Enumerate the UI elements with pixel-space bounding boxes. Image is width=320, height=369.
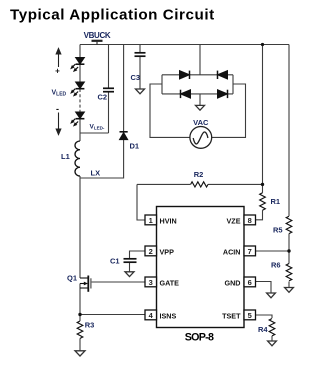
svg-text:SOP-8: SOP-8	[185, 332, 214, 344]
wire C2 vertical top	[108, 45, 110, 89]
wire R3 to ground	[79, 338, 81, 350]
svg-text:Q1: Q1	[67, 274, 77, 283]
wire GATE pin 3 to Q1	[91, 281, 145, 283]
svg-text:L1: L1	[61, 152, 70, 161]
ground below C3	[136, 89, 145, 94]
wire Q1 source down to R3 node	[79, 284, 81, 322]
wire GND pin 6	[256, 282, 272, 294]
svg-text:ISNS: ISNS	[160, 311, 177, 320]
LED D-string LED3	[71, 112, 84, 126]
pin 2 box	[145, 246, 157, 256]
wire dashed LED2 to LED3	[79, 89, 81, 112]
wire R4 to ground	[271, 336, 273, 341]
wire R2 right segment	[208, 183, 263, 185]
svg-text:R6: R6	[271, 261, 281, 270]
ground below pin 6	[267, 293, 276, 298]
ground below R4	[268, 341, 277, 346]
resistor R1	[260, 193, 266, 210]
ground below R6	[285, 288, 294, 293]
svg-text:VLED-: VLED-	[90, 124, 105, 131]
wire bridge left edge	[161, 75, 163, 94]
svg-text:C3: C3	[131, 73, 141, 82]
svg-text:VPP: VPP	[160, 247, 175, 256]
junction ISNS node	[78, 313, 81, 316]
transistor Q1	[80, 276, 91, 292]
wire L1 bottom to Q1 drain	[79, 176, 81, 278]
wire between LED1 and LED2	[79, 65, 81, 83]
svg-text:VLED: VLED	[52, 90, 67, 98]
svg-text:R1: R1	[271, 197, 281, 206]
ground below C1	[125, 272, 134, 277]
svg-text:VZE: VZE	[227, 216, 241, 225]
svg-text:2: 2	[149, 247, 153, 256]
svg-text:HVIN: HVIN	[160, 216, 177, 225]
svg-text:+: +	[55, 67, 60, 76]
svg-text:R2: R2	[194, 170, 204, 179]
svg-text:VBUCK: VBUCK	[84, 31, 111, 40]
wire VPP pin 2 to C1	[130, 251, 146, 259]
LED D-string LED1	[71, 58, 84, 72]
junction rail/R1	[261, 43, 264, 46]
resistor R5	[286, 216, 292, 233]
pin 4 box	[145, 310, 157, 320]
wire ACIN pin 7	[256, 250, 290, 252]
wire LED chain top	[79, 45, 81, 58]
wire C3 vertical top	[139, 45, 141, 53]
wire TSET pin 5 to R4	[256, 315, 273, 318]
bridge diode bottom-left	[181, 90, 191, 98]
svg-text:1: 1	[149, 216, 153, 225]
svg-text:R4: R4	[258, 325, 268, 334]
svg-text:GATE: GATE	[160, 278, 180, 287]
svg-text:GND: GND	[225, 278, 241, 287]
wire VLED- horizontal	[80, 132, 109, 134]
svg-text:LX: LX	[91, 169, 101, 178]
svg-text:ACIN: ACIN	[223, 247, 241, 256]
svg-text:C2: C2	[98, 93, 108, 102]
resistor R6	[286, 264, 292, 281]
svg-text:Typical Application Circuit: Typical Application Circuit	[10, 7, 215, 24]
pin 6 box	[244, 277, 256, 287]
source VAC	[190, 126, 212, 148]
capacitor C2	[103, 88, 114, 91]
wire C2 vertical bottom	[108, 92, 110, 134]
VLED polarity indicator	[56, 49, 61, 135]
wire R1 vertical from rail	[262, 45, 264, 193]
capacitor C1	[124, 259, 137, 262]
svg-text:VAC: VAC	[193, 118, 209, 127]
pin 7 box	[244, 246, 256, 256]
svg-text:-: -	[56, 104, 59, 114]
wire bridge right edge	[232, 75, 234, 94]
LED D-string LED2	[71, 82, 84, 96]
pin 5 box	[244, 310, 256, 320]
junction R2/R1	[261, 183, 264, 186]
terminal VBUCK	[92, 41, 103, 45]
inductor L1	[75, 141, 80, 176]
wire LED3 to VLED- node	[79, 119, 81, 142]
resistor R2	[191, 182, 208, 187]
wire AC right loop	[212, 84, 246, 137]
svg-text:7: 7	[248, 247, 252, 256]
op-amp U1 SOP-8 IC body	[157, 207, 245, 328]
svg-text:5: 5	[248, 311, 252, 320]
wire C3 to ground	[139, 56, 141, 89]
svg-text:R3: R3	[85, 321, 95, 330]
resistor R3	[77, 321, 83, 338]
svg-text:6: 6	[248, 278, 252, 287]
wire D1 to LX	[80, 140, 124, 178]
bridge diode bottom-right	[218, 90, 228, 98]
ground arrow below bridge	[196, 105, 205, 110]
wire AC left loop	[150, 84, 190, 137]
ground below R3	[75, 351, 85, 356]
svg-text:R5: R5	[273, 226, 283, 235]
wire R5 vertical from rail	[288, 45, 290, 217]
svg-text:TSET: TSET	[222, 311, 241, 320]
wire ISNS pin 4	[80, 314, 145, 316]
capacitor C3	[135, 53, 146, 56]
svg-text:D1: D1	[130, 142, 140, 151]
resistor R4	[269, 319, 275, 336]
wire top rail VBUCK	[80, 44, 289, 46]
pin 3 box	[145, 277, 157, 287]
wire D1 vertical top	[123, 45, 125, 132]
wire bridge top line	[162, 74, 233, 76]
svg-text:8: 8	[248, 216, 252, 225]
bridge diode top-left	[180, 71, 190, 79]
svg-text:C1: C1	[110, 257, 120, 266]
wire bridge bottom stub to arrow	[199, 94, 201, 106]
wire R5 bottom to junction	[288, 234, 290, 264]
bridge diode top-right	[218, 71, 228, 79]
pin 8 box	[244, 215, 256, 225]
wire R1 bottom to pin 8	[256, 210, 263, 220]
svg-text:3: 3	[149, 278, 153, 287]
wire R6 to ground	[288, 282, 290, 288]
wire C1 to ground	[129, 262, 131, 272]
diode D1	[120, 132, 128, 140]
junction ACIN/R5R6	[287, 249, 290, 252]
wire R2 left segment	[137, 183, 191, 185]
pin 1 box	[145, 215, 157, 225]
wire bridge bottom line	[162, 93, 233, 95]
wire bridge top center	[199, 45, 201, 75]
wire HVIN pin stub	[137, 184, 145, 220]
